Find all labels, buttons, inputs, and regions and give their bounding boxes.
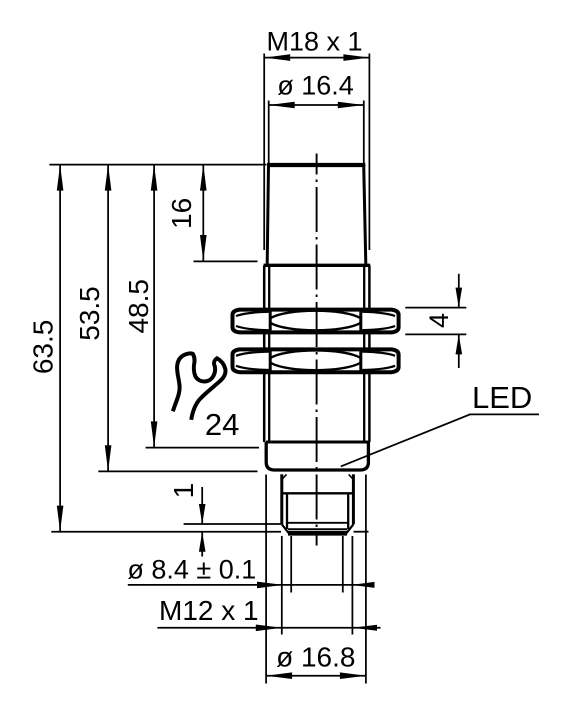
- extension line 63.5 bottom: [51, 531, 281, 533]
- wrench icon: [173, 353, 226, 419]
- svg-text:48.5: 48.5: [123, 279, 154, 334]
- dimension 53.5: [74, 165, 112, 472]
- svg-text:24: 24: [205, 407, 239, 442]
- M12 connector plug: [282, 474, 354, 533]
- svg-text:ø 16.4: ø 16.4: [277, 71, 354, 101]
- threaded barrel outer lines: [264, 265, 369, 442]
- dimension 4 (right side): [405, 274, 466, 368]
- dimension 1: [168, 483, 206, 557]
- dimension ø 8.4 ± 0.1: [127, 536, 374, 593]
- extension line 48.5 bottom: [146, 447, 259, 449]
- dimension M18 x 1: [264, 26, 369, 250]
- svg-text:M18 x 1: M18 x 1: [266, 26, 362, 56]
- hex nut upper: [233, 310, 399, 333]
- svg-text:4: 4: [424, 313, 454, 328]
- dimension M12 x 1: [157, 536, 380, 635]
- svg-text:M12 x 1: M12 x 1: [159, 595, 259, 626]
- extension line 16 bottom: [194, 260, 258, 262]
- LED label: [341, 380, 539, 466]
- dimension ø 16.8: [266, 475, 366, 684]
- svg-text:63.5: 63.5: [27, 320, 58, 375]
- dimension 63.5: [27, 165, 63, 532]
- svg-text:16: 16: [166, 198, 197, 229]
- LED end cap: [266, 442, 368, 470]
- svg-text:LED: LED: [472, 380, 532, 415]
- threaded barrel inner (thread root) lines: [269, 267, 364, 443]
- shoulder line: [264, 264, 371, 267]
- svg-text:ø 16.8: ø 16.8: [276, 642, 355, 673]
- body to cap transition line: [266, 441, 369, 444]
- top extension line (left dims): [49, 164, 266, 166]
- thin line right of connector bottom: [354, 531, 369, 533]
- svg-text:1: 1: [168, 483, 199, 499]
- dimension 48.5: [123, 165, 157, 448]
- extension line 1 top: [184, 523, 281, 525]
- extension line 53.5 bottom: [98, 470, 257, 472]
- hex nut lower: [233, 349, 399, 372]
- center line: [316, 154, 318, 546]
- sensor head (sensing face section): [267, 165, 366, 264]
- dimension ø 16.4: [269, 71, 364, 163]
- svg-text:ø 8.4 ± 0.1: ø 8.4 ± 0.1: [127, 555, 256, 585]
- dimension 16: [166, 165, 206, 261]
- svg-text:53.5: 53.5: [74, 286, 105, 341]
